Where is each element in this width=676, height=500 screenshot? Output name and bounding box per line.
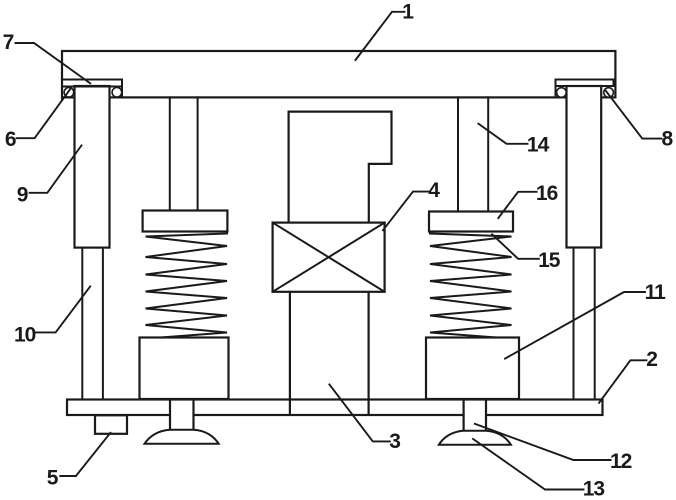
leader 16 xyxy=(498,192,536,218)
X-box 4 xyxy=(273,223,385,292)
leader 2 xyxy=(599,360,646,403)
svg-text:1: 1 xyxy=(402,0,414,23)
X-box diagonal B xyxy=(273,223,385,292)
svg-text:14: 14 xyxy=(527,133,550,156)
leader 4 xyxy=(383,192,428,231)
left suction cup xyxy=(145,430,219,444)
svg-text:8: 8 xyxy=(662,128,674,151)
svg-text:5: 5 xyxy=(47,466,59,489)
left cylinder 9 xyxy=(75,86,110,248)
svg-text:9: 9 xyxy=(17,184,29,207)
leader 5 xyxy=(60,433,110,476)
right inner column 14 xyxy=(458,97,488,211)
leader 8 xyxy=(606,91,662,139)
svg-text:11: 11 xyxy=(645,281,667,304)
right spring 15 xyxy=(430,234,512,338)
leader 14 xyxy=(478,124,527,144)
left spring top block xyxy=(143,211,228,232)
svg-text:7: 7 xyxy=(3,31,15,54)
top plate 1 xyxy=(62,51,615,97)
right bracket circle A xyxy=(557,88,567,98)
svg-text:4: 4 xyxy=(428,179,440,202)
leader 7 xyxy=(16,43,91,83)
svg-text:3: 3 xyxy=(389,430,401,453)
left spring bottom block xyxy=(140,338,229,400)
left bracket circle B xyxy=(112,88,122,98)
svg-text:16: 16 xyxy=(536,182,558,205)
leader 1 xyxy=(356,12,405,60)
left rod 10 xyxy=(82,248,103,400)
right spring bottom block 11 xyxy=(426,338,519,400)
leader 12 xyxy=(475,424,611,460)
central column 3 (lower section) xyxy=(290,292,369,414)
left bracket 7 xyxy=(62,80,122,100)
svg-text:6: 6 xyxy=(5,128,17,151)
right rod xyxy=(574,248,595,401)
leader 13 xyxy=(473,439,584,490)
leader 3 xyxy=(329,384,389,441)
right spring top block 16 xyxy=(429,212,513,232)
leader 6 xyxy=(17,89,71,139)
left spring xyxy=(146,234,228,338)
leader 9 xyxy=(30,145,82,192)
right bracket xyxy=(556,80,614,98)
right suction cup 13 xyxy=(439,431,511,445)
X-box diagonal A xyxy=(273,223,385,292)
svg-text:2: 2 xyxy=(646,348,658,371)
svg-text:13: 13 xyxy=(583,478,605,500)
leader 11 xyxy=(505,292,645,359)
block 5 xyxy=(95,415,127,434)
left foot stem xyxy=(170,401,194,430)
bottom plate 2 xyxy=(67,400,603,416)
leader 15 xyxy=(492,234,539,258)
right bracket circle B (8) xyxy=(604,88,614,98)
right foot stem 12 xyxy=(464,401,486,431)
svg-text:10: 10 xyxy=(14,324,36,347)
right cylinder xyxy=(567,86,602,248)
central column 3 (upper section with notch) xyxy=(289,112,392,223)
leader 10 xyxy=(36,286,90,332)
svg-text:15: 15 xyxy=(538,249,561,272)
left inner column xyxy=(170,97,198,210)
left bracket circle A (6) xyxy=(64,88,74,98)
svg-text:12: 12 xyxy=(610,450,632,473)
